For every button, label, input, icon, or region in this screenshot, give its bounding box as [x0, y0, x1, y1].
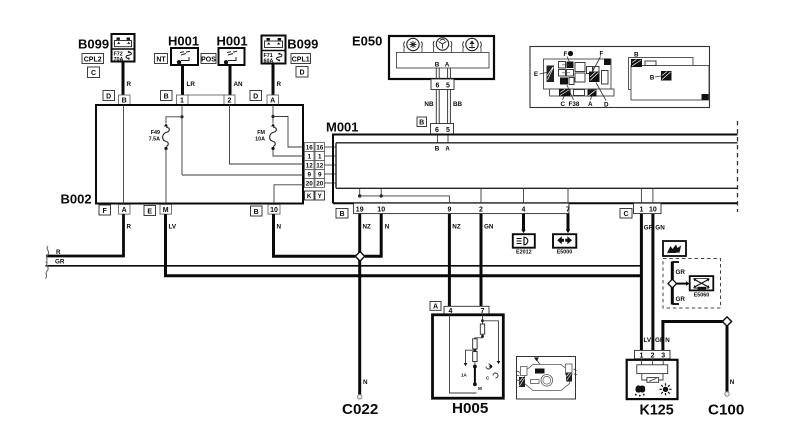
svg-text:H001: H001 [168, 34, 199, 49]
location legend box (top right) [530, 47, 710, 109]
M001 internal stubs pins 2,4,7 [481, 188, 568, 203]
internal wire pin 1 to fuse F49 and row 9 [166, 105, 303, 175]
connector label D [250, 91, 262, 101]
svg-text:POS: POS [201, 56, 216, 63]
left connector tab [521, 367, 528, 376]
B002 pin B [119, 95, 131, 105]
svg-text:B: B [164, 93, 169, 100]
svg-text:A: A [270, 98, 275, 105]
wire N to ground eyelet C100 [708, 326, 744, 418]
arrow to E5060 [677, 283, 687, 285]
svg-text:E050: E050 [352, 34, 382, 49]
M001 inner box [336, 143, 738, 189]
resistor 3 in H005 [473, 352, 477, 362]
wire R from B002 pin A to left edge [46, 214, 132, 256]
svg-text:GR: GR [55, 259, 65, 266]
fuse F49 7.5A [149, 123, 170, 203]
svg-text:A: A [122, 207, 127, 214]
svg-text:19: 19 [356, 207, 364, 214]
svg-text:M: M [478, 386, 482, 391]
battery/fuse B099 (right) [262, 36, 319, 65]
svg-text:B: B [435, 62, 440, 69]
heater unit location legend (bottom middle) [517, 357, 578, 400]
B002 pin A [267, 95, 279, 105]
svg-text:A: A [445, 146, 450, 153]
connector label A at H005 [430, 302, 441, 311]
fuse box drawing [544, 59, 612, 89]
svg-text:16: 16 [306, 145, 314, 152]
wires B,A from E050 bar to connector [436, 68, 450, 79]
B002 pins 1 and 2 strip [177, 95, 236, 105]
svg-text:B: B [634, 52, 639, 59]
svg-text:9: 9 [447, 207, 451, 214]
svg-text:B099: B099 [78, 36, 109, 51]
switch icon H001 right [224, 60, 228, 64]
svg-text:E5060: E5060 [694, 293, 710, 299]
svg-text:AN: AN [234, 81, 244, 88]
svg-text:M001: M001 [326, 120, 359, 135]
junction diamond in dashed box [668, 279, 677, 288]
svg-text:M: M [163, 207, 169, 214]
svg-text:6: 6 [435, 127, 439, 134]
resistor 1 in H005 [475, 324, 485, 339]
ignition switch H001 (right) [217, 34, 248, 65]
right connector tab [566, 364, 573, 375]
ground eyelet C022 [342, 395, 378, 418]
svg-text:60A: 60A [264, 58, 274, 64]
B002 pin A (bottom) [119, 205, 131, 215]
svg-text:D: D [299, 70, 304, 77]
relays [575, 63, 585, 72]
K125 resistor element [642, 374, 663, 380]
svg-text:K: K [307, 193, 312, 200]
body computer M001 outer box [326, 120, 738, 213]
svg-text:N: N [385, 223, 390, 230]
svg-text:A: A [433, 304, 438, 311]
internal wire pin 2 to row 12 [230, 105, 304, 164]
svg-text:NT: NT [156, 56, 166, 63]
svg-text:1: 1 [639, 352, 643, 359]
wire GR bus to left edge [46, 259, 642, 266]
svg-text:20: 20 [306, 181, 314, 188]
switch icon H001 left [177, 60, 181, 64]
K125 fan icon [635, 385, 645, 392]
wire N from M001 pin 10 to junction [365, 214, 390, 257]
motor feed node and lead in H005 [473, 362, 498, 391]
svg-text:B: B [419, 120, 424, 127]
break squiggle on wire R [46, 246, 49, 263]
connector label B [417, 117, 427, 127]
svg-text:9: 9 [318, 172, 322, 179]
svg-text:C: C [561, 101, 566, 108]
heater body octagon [525, 365, 570, 391]
wire stub M001 pin 4 to E2012 [521, 214, 526, 234]
svg-text:B002: B002 [61, 192, 92, 207]
svg-text:K125: K125 [640, 403, 674, 419]
connector label NT [155, 54, 168, 64]
ignition switch H001 (left) [168, 34, 199, 65]
wire AN from H001 right to B002 pin 2 [230, 65, 243, 105]
blower resistor pack H005 [433, 315, 504, 417]
wire GN from M001 pin 10 down to K125 pin 2 [653, 214, 665, 351]
svg-text:LR: LR [187, 81, 196, 88]
svg-text:D: D [253, 93, 258, 100]
connector 6 5 at E050 [431, 79, 454, 90]
svg-text:B099: B099 [287, 36, 318, 51]
svg-text:CPL1: CPL1 [292, 56, 310, 63]
wire GN from M001 pin 2 to H005 pin 7 [481, 214, 494, 307]
instrument cluster E050 [352, 34, 494, 80]
connector label CPL2 [82, 54, 104, 64]
svg-text:6: 6 [436, 82, 440, 89]
svg-text:2: 2 [651, 352, 655, 359]
svg-text:16: 16 [316, 145, 324, 152]
H005 internal conductor from pin 7 [481, 315, 500, 364]
svg-text:12: 12 [306, 163, 314, 170]
connector 6 5 at M001 [431, 124, 454, 153]
svg-text:NZ: NZ [452, 223, 461, 230]
svg-text:H005: H005 [452, 400, 489, 417]
battery icon in B099 left [115, 38, 132, 47]
turn signal unit E5000 [553, 234, 576, 255]
svg-text:BB: BB [453, 101, 463, 108]
wires connector Y to M001 [325, 147, 337, 183]
connector label CPL1 [291, 54, 311, 64]
svg-text:N: N [277, 223, 282, 230]
B002 bottom connector label B [251, 206, 263, 216]
fuse F71 60A in B099 right [264, 53, 282, 65]
internal wire pin A to fuse FM and row 16 [271, 105, 303, 147]
B002 bottom connector label E [144, 206, 156, 216]
junction node (diamond) [355, 252, 364, 262]
svg-text:F38: F38 [569, 101, 580, 108]
svg-text:FM: FM [257, 130, 265, 136]
M001 internal stubs pins 1,10 (connector C) [641, 188, 653, 203]
connector block Y between B002 and M001 [315, 143, 325, 188]
internal wire row 20 to pin 10 [274, 185, 303, 204]
svg-text:F49: F49 [151, 130, 160, 136]
dashed reference box E5060 [663, 259, 721, 309]
wire NZ from M001 pin 19 to C022 [360, 214, 371, 396]
svg-text:B: B [339, 211, 344, 218]
battery/fuse B099 (left) [45, 34, 744, 419]
bottom row components [559, 89, 571, 97]
K125 contact bar [637, 365, 668, 374]
connector label D [103, 91, 115, 101]
wire GR fragment [671, 262, 674, 305]
svg-text:5: 5 [446, 82, 450, 89]
wire LV from B002 pin M to K125 pin 1 column [166, 214, 642, 276]
svg-text:D: D [106, 93, 111, 100]
wire NZ from M001 pin 9 to H005 pin 4 [449, 214, 460, 307]
svg-text:E5000: E5000 [557, 249, 573, 255]
connector label POS [201, 54, 216, 64]
svg-text:H001: H001 [217, 34, 248, 49]
M001 internal link pins 19,10,9 [358, 188, 449, 203]
svg-text:B: B [435, 146, 440, 153]
wire BB [448, 90, 463, 124]
warning lamp 3 in E050 [463, 38, 482, 52]
svg-text:20: 20 [316, 181, 324, 188]
svg-text:R: R [56, 249, 61, 256]
svg-text:C: C [623, 211, 628, 218]
connector view label D [296, 67, 308, 78]
svg-text:2: 2 [479, 207, 483, 214]
junction diamond C100 [722, 317, 731, 326]
svg-text:1: 1 [318, 154, 322, 161]
wire R from B099 right to B002 pin A [273, 64, 282, 106]
svg-text:F: F [103, 208, 108, 215]
svg-text:2: 2 [228, 98, 232, 105]
svg-text:B: B [122, 98, 127, 105]
svg-text:7.5A: 7.5A [149, 137, 160, 143]
B002 pin M (bottom) [160, 205, 172, 215]
svg-text:1: 1 [307, 154, 311, 161]
svg-text:10: 10 [649, 207, 657, 214]
K125 illumination icon [663, 387, 668, 392]
B002 pin 10 (bottom) [268, 205, 280, 215]
svg-text:3: 3 [661, 352, 665, 359]
svg-text:C100: C100 [708, 402, 744, 419]
svg-text:GN: GN [655, 224, 665, 231]
svg-text:N: N [363, 379, 368, 386]
svg-text:7: 7 [566, 207, 570, 214]
control unit E5060 [690, 276, 714, 290]
battery icon in B099 right [265, 38, 283, 48]
svg-text:A: A [588, 101, 593, 108]
connector label B at M001 [336, 209, 348, 219]
svg-text:12: 12 [316, 163, 324, 170]
horn icon box [663, 241, 686, 256]
K125 connector strip (1 2 3) [635, 350, 671, 359]
svg-text:10: 10 [377, 207, 385, 214]
warning lamp 1 in E050 [404, 38, 423, 52]
fuse FM 10A [255, 123, 303, 156]
K125 internal stubs [640, 359, 642, 365]
svg-text:C: C [91, 70, 96, 77]
svg-text:GN: GN [484, 223, 494, 230]
fuse F72 70A in B099 left [114, 51, 132, 63]
pointer label A [537, 360, 540, 365]
svg-text:10: 10 [270, 207, 278, 214]
branch to speed tap arrow [461, 350, 475, 377]
svg-text:GR: GR [676, 269, 686, 276]
wire GR from M001 pin 1 down to K125 pin 1 [641, 214, 653, 351]
svg-text:LV: LV [169, 223, 177, 230]
svg-text:B: B [254, 209, 259, 216]
svg-text:E: E [147, 208, 152, 215]
fusebox B002 [61, 105, 304, 207]
wire stub M001 pin 7 to E5000 [566, 214, 571, 234]
internal wire pin B to pin A [123, 105, 125, 204]
svg-text:N: N [730, 379, 735, 386]
B002 bottom connector label F [99, 205, 111, 215]
connector label K [305, 191, 315, 200]
svg-text:1A: 1A [461, 373, 468, 378]
svg-text:R: R [277, 81, 282, 88]
resistor 2 in H005 [473, 339, 477, 349]
wire N from B002 pin 10 to junction [274, 214, 356, 256]
svg-text:A: A [445, 62, 450, 69]
svg-text:N: N [665, 337, 670, 344]
svg-text:NB: NB [424, 101, 434, 108]
wire NB [424, 90, 439, 124]
H005 internal conductor from pin 4 [450, 315, 477, 393]
fuse grid [559, 62, 566, 69]
svg-text:B: B [650, 75, 655, 82]
M001 bottom pin strip C (1 10) [634, 203, 662, 213]
svg-text:D: D [604, 102, 609, 109]
connector block K between B002 and M001 [305, 143, 315, 188]
svg-text:E: E [534, 71, 538, 78]
svg-text:E2012: E2012 [516, 249, 532, 255]
connector view label C [88, 67, 100, 78]
svg-text:CPL2: CPL2 [84, 56, 102, 63]
svg-text:5: 5 [446, 127, 450, 134]
svg-text:4: 4 [522, 207, 526, 214]
M001 bottom pin strip B (19 10 9 2 4 7) [354, 203, 570, 213]
warning lamp 2 in E050 [433, 38, 452, 53]
dashboard drawing right [629, 58, 694, 90]
wire LR from H001 left to B002 pin 1 [183, 65, 196, 105]
svg-text:C022: C022 [342, 401, 378, 418]
svg-text:NZ: NZ [363, 223, 372, 230]
connector label Y [315, 191, 325, 200]
svg-text:LV: LV [644, 337, 652, 344]
svg-text:1: 1 [639, 207, 643, 214]
node between resistors [473, 349, 476, 352]
connector label C at M001 [620, 209, 632, 219]
svg-text:9: 9 [307, 172, 311, 179]
blower switch K125 [627, 359, 678, 419]
connector label B [161, 91, 173, 101]
svg-text:GR: GR [676, 296, 686, 303]
H005 pin strip (4 7) [444, 306, 489, 315]
svg-text:10A: 10A [255, 137, 265, 143]
headlamp unit E2012 [513, 234, 535, 255]
break squiggle on wire GR [45, 262, 48, 279]
svg-text:R: R [127, 81, 132, 88]
wire R from B099 left to B002 pin B [123, 62, 132, 106]
svg-text:1: 1 [180, 98, 184, 105]
wire N from K125 pin 3 to C100 junction [663, 322, 723, 351]
svg-text:R: R [127, 223, 132, 230]
